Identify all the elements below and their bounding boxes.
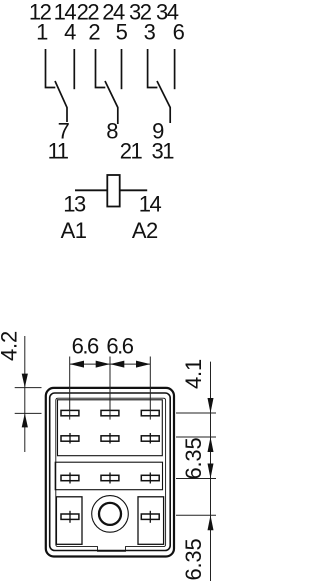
pin tick row 3 col 3 bbox=[149, 473, 151, 484]
pin slot row 1 col 3 bbox=[141, 410, 159, 415]
svg-text:4: 4 bbox=[64, 20, 76, 45]
contact pins box rows 1-2 bbox=[58, 400, 163, 456]
extension line pin column 1 bbox=[69, 357, 71, 420]
contact pole 1 NC terminal bbox=[46, 49, 56, 88]
svg-text:4.1: 4.1 bbox=[181, 359, 206, 389]
pin slot row 3 col 3 bbox=[141, 475, 159, 480]
pin slot row 3 col 2 bbox=[101, 475, 119, 480]
coil pin tick right bbox=[149, 511, 151, 523]
contact pins box row 3 bbox=[55, 462, 162, 490]
svg-text:6.35: 6.35 bbox=[181, 437, 206, 479]
svg-text:6.6: 6.6 bbox=[106, 334, 133, 359]
relay body middle outline bbox=[50, 393, 171, 551]
extension line right pin row 3 bbox=[176, 478, 216, 480]
dimension line left vertical bbox=[24, 336, 26, 452]
contact pole 3 NC terminal bbox=[148, 49, 158, 88]
contact pole 3 NO terminal bbox=[174, 49, 176, 89]
svg-text:6.6: 6.6 bbox=[72, 334, 99, 359]
svg-text:31: 31 bbox=[152, 138, 175, 163]
arrow down to pin row 3 right bbox=[208, 464, 214, 479]
coil K1 bbox=[107, 175, 119, 207]
mounting boss inner circle bbox=[99, 503, 121, 525]
svg-text:11: 11 bbox=[48, 138, 69, 163]
dimension line right vertical bbox=[210, 362, 212, 581]
contact pole 2 NO terminal bbox=[121, 49, 123, 89]
coil left lead wire bbox=[75, 189, 107, 191]
pin tick row 2 col 1 bbox=[69, 433, 71, 444]
pin tick row 3 col 1 bbox=[69, 473, 71, 484]
pin slot row 2 col 3 bbox=[141, 436, 159, 441]
svg-text:3: 3 bbox=[144, 20, 156, 45]
extension line pin column 3 bbox=[149, 357, 151, 420]
contact pole 3 movable arm and common bbox=[157, 81, 170, 123]
coil pin tick left bbox=[69, 511, 71, 523]
svg-text:13: 13 bbox=[63, 192, 86, 217]
svg-text:6.35: 6.35 bbox=[181, 538, 206, 580]
pin slot row 1 col 1 bbox=[61, 410, 79, 415]
common pin labels 7 8 9 bbox=[58, 118, 165, 143]
coil pin slot left bbox=[61, 514, 79, 519]
svg-text:A1: A1 bbox=[61, 218, 87, 243]
extension line left top bbox=[15, 387, 42, 389]
dimension labels 6.6 6.6 bbox=[72, 334, 134, 359]
svg-text:2: 2 bbox=[88, 20, 100, 45]
pin tick row 2 col 2 bbox=[109, 433, 111, 444]
extension line pin column 2 bbox=[109, 357, 111, 420]
svg-text:5: 5 bbox=[116, 20, 128, 45]
svg-text:21: 21 bbox=[120, 138, 143, 163]
arrow up to pin row left bbox=[22, 413, 28, 427]
svg-text:6: 6 bbox=[173, 20, 185, 45]
contact pole 1 movable arm and common bbox=[55, 81, 67, 122]
svg-text:4.2: 4.2 bbox=[0, 331, 22, 361]
pin tick row 2 col 3 bbox=[149, 433, 151, 444]
coil pin box left bbox=[56, 497, 82, 545]
pin slot row 3 col 1 bbox=[61, 475, 79, 480]
contact pole 2 NC terminal bbox=[96, 49, 106, 88]
coil pin slot right bbox=[141, 514, 159, 519]
arrow down to pin row 1 right bbox=[208, 398, 214, 413]
relay body outer outline bbox=[46, 388, 174, 557]
arrow up to pin row 2 right bbox=[208, 437, 214, 452]
contact pole 1 NO terminal bbox=[73, 49, 75, 89]
extension line right bottom pin row bbox=[176, 514, 216, 516]
coil right lead wire bbox=[120, 189, 148, 191]
arrow down to body top left bbox=[22, 374, 28, 388]
common node labels 11 21 31 bbox=[48, 138, 175, 163]
pin slot row 1 col 2 bbox=[101, 410, 119, 415]
mounting boss outer circle bbox=[92, 496, 129, 533]
coil pin box right bbox=[138, 497, 164, 545]
relay body inner rim with bottom notch bbox=[56, 398, 166, 551]
pin slot row 2 col 2 bbox=[101, 436, 119, 441]
svg-text:A2: A2 bbox=[132, 218, 158, 243]
arrow up to bottom pin row right bbox=[208, 515, 214, 530]
svg-text:1: 1 bbox=[36, 20, 48, 45]
svg-text:8: 8 bbox=[106, 118, 118, 143]
contact pole 2 movable arm and common bbox=[105, 81, 118, 124]
extension line right pin row 2 bbox=[176, 436, 216, 438]
coil pin labels 13 14 bbox=[63, 192, 161, 217]
node labels row 12 14 22 24 32 34 bbox=[29, 0, 179, 25]
extension line left pin row bbox=[15, 412, 42, 414]
pin labels row 1 4 2 5 3 6 bbox=[36, 20, 185, 45]
pin slot row 2 col 1 bbox=[61, 436, 79, 441]
extension line right pin row 1 bbox=[176, 412, 216, 414]
svg-text:14: 14 bbox=[139, 192, 162, 217]
arrowheads 6.6 spans bbox=[70, 361, 84, 368]
pin tick row 3 col 2 bbox=[109, 473, 111, 484]
dimension line 6.6 horizontal bbox=[70, 363, 151, 365]
coil terminal labels A1 A2 bbox=[61, 218, 158, 243]
